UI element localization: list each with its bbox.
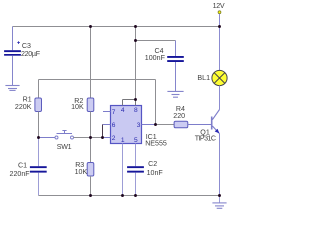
label BL1 xyxy=(197,74,210,82)
pin number 1 xyxy=(121,137,125,144)
resistor R4 xyxy=(174,121,188,128)
wire R2 bottom to junction xyxy=(90,112,92,138)
junction rail/pin8 branch xyxy=(134,25,137,28)
label 220nF xyxy=(10,170,31,178)
capacitor C2 xyxy=(127,166,144,172)
node 12V terminal xyxy=(218,11,221,14)
wire R1 top to pin3 net (horizontal) xyxy=(39,79,156,81)
wire C1 upper lead xyxy=(38,138,40,167)
wire R1 bottom to junction xyxy=(38,112,40,138)
ground (C3) xyxy=(5,86,19,91)
capacitor C3 xyxy=(4,41,21,56)
wire pin3 junction to R4 xyxy=(156,124,175,126)
junction rail/R2 xyxy=(89,25,92,28)
label TIP31C xyxy=(195,134,216,142)
junction pin1/bottom rail xyxy=(121,194,124,197)
svg-text:6: 6 xyxy=(112,122,116,129)
resistor R1 xyxy=(35,98,42,112)
svg-text:220µF: 220µF xyxy=(21,50,41,58)
junction C4 branch xyxy=(134,39,137,42)
label 10K (R2) xyxy=(71,103,84,111)
label 220 xyxy=(173,112,185,120)
wire C1 to bottom rail xyxy=(38,173,40,196)
pin number 4 xyxy=(121,107,125,114)
svg-text:5: 5 xyxy=(134,137,138,144)
pin 7 stub xyxy=(103,111,111,113)
switch SW1 xyxy=(55,131,74,140)
svg-text:C3: C3 xyxy=(22,42,31,50)
svg-text:BL1: BL1 xyxy=(197,74,210,82)
pin 1 stub and wire to rail xyxy=(122,144,124,196)
wire C4 to ground xyxy=(175,62,177,91)
svg-text:10K: 10K xyxy=(71,103,84,111)
svg-text:12V: 12V xyxy=(213,2,225,10)
wire 12V to rail xyxy=(219,14,221,27)
wire rail to R2 xyxy=(90,27,92,99)
pin number 7 xyxy=(112,109,116,116)
svg-text:10K: 10K xyxy=(75,168,88,176)
pin number 8 xyxy=(134,107,138,114)
wire Q1 emitter to bottom rail xyxy=(219,134,221,196)
wire top +12V rail xyxy=(13,26,220,28)
svg-text:10nF: 10nF xyxy=(147,169,164,177)
wire rail to lamp xyxy=(219,27,221,71)
svg-text:100nF: 100nF xyxy=(145,54,166,62)
svg-text:220nF: 220nF xyxy=(10,170,31,178)
junction C2/bottom rail xyxy=(134,194,137,197)
wire R3 bottom to rail xyxy=(90,176,92,196)
wire R4 to Q1 base xyxy=(188,124,211,126)
wire R3 upper lead xyxy=(90,138,92,163)
wire R1 upper lead xyxy=(38,80,40,99)
wire lamp to Q1 collector xyxy=(219,86,221,110)
wire C2 to bottom rail xyxy=(135,173,137,196)
label C2 xyxy=(148,160,157,168)
wire junction row to switch xyxy=(39,137,56,139)
svg-text:1: 1 xyxy=(121,137,125,144)
wire C3 branch from rail xyxy=(12,27,14,51)
transistor Q1 xyxy=(211,110,220,134)
junction emitter/rail/ground xyxy=(218,194,221,197)
wire switch to pin2 junctions xyxy=(74,137,103,139)
label 100nF xyxy=(145,54,166,62)
label R2 xyxy=(74,97,83,105)
svg-text:C2: C2 xyxy=(148,160,157,168)
lamp BL1 xyxy=(212,70,227,85)
label R4 xyxy=(176,105,185,113)
label R1 xyxy=(23,95,32,103)
pin number 2 xyxy=(112,135,116,142)
svg-text:8: 8 xyxy=(134,107,138,114)
ground (emitter/rail) xyxy=(212,203,226,208)
junction pin4/pin8 xyxy=(134,98,137,101)
junction R1/SW1/C1 xyxy=(37,136,40,139)
wire pin4-pin8 connector xyxy=(123,99,136,101)
pin number 6 xyxy=(112,122,116,129)
svg-text:7: 7 xyxy=(112,109,116,116)
pin number 5 xyxy=(134,137,138,144)
pin 8 stub xyxy=(135,100,137,106)
svg-text:TIP31C: TIP31C xyxy=(195,134,216,142)
svg-text:220K: 220K xyxy=(15,103,32,111)
label R3 xyxy=(75,161,84,169)
label C3 xyxy=(22,42,31,50)
junction R2/R3/row xyxy=(89,136,92,139)
junction pin3/R4 xyxy=(154,123,157,126)
wire rail to pin8 branch vertical xyxy=(135,27,137,100)
label 10nF xyxy=(147,169,164,177)
pin 6 stub xyxy=(103,124,111,126)
junction R3/bottom rail xyxy=(89,194,92,197)
label C4 xyxy=(155,47,164,55)
resistor R3 xyxy=(87,163,94,177)
IC1 NE555 body xyxy=(111,106,142,144)
label 12V xyxy=(213,2,225,10)
svg-text:SW1: SW1 xyxy=(57,143,72,151)
label NE555 xyxy=(145,139,167,147)
wire bottom ground rail xyxy=(39,195,220,197)
label 220µF xyxy=(21,50,41,58)
label SW1 xyxy=(57,143,72,151)
resistor R2 xyxy=(87,98,94,112)
svg-text:220: 220 xyxy=(173,112,185,120)
wire rail stub to ground xyxy=(219,196,221,203)
svg-text:NE555: NE555 xyxy=(145,139,167,147)
svg-text:2: 2 xyxy=(112,135,116,142)
wire vertical drop to pin3 junction xyxy=(155,80,157,125)
pin 4 stub xyxy=(122,100,124,106)
junction pin6 loop/row xyxy=(101,136,104,139)
ground (C4) xyxy=(167,91,183,97)
pin number 3 xyxy=(137,122,141,129)
wire C4 branch horizontal xyxy=(136,40,176,42)
label C1 xyxy=(18,162,27,170)
pin 2 stub xyxy=(103,137,111,139)
pin 3 stub xyxy=(142,124,156,126)
capacitor C4 xyxy=(167,56,184,62)
label 220K xyxy=(15,103,32,111)
wire pin6 loop down xyxy=(102,125,104,138)
label Q1 xyxy=(200,128,210,136)
label IC1 xyxy=(146,133,157,141)
svg-text:C1: C1 xyxy=(18,162,27,170)
label 10K (R3) xyxy=(75,168,88,176)
capacitor C1 xyxy=(30,166,47,172)
wire C3 to ground xyxy=(12,56,14,86)
wire C4 upper lead xyxy=(175,41,177,57)
svg-text:3: 3 xyxy=(137,122,141,129)
pin 5 stub to C2 xyxy=(135,144,137,167)
junction rail/12V xyxy=(218,25,221,28)
svg-text:4: 4 xyxy=(121,107,125,114)
